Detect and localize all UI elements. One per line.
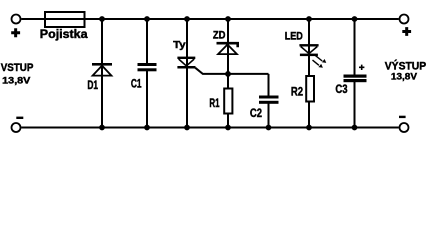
- terminal input -: [12, 123, 21, 132]
- svg-text:C1: C1: [131, 77, 142, 91]
- svg-text:R1: R1: [209, 96, 219, 110]
- svg-text:VSTUP: VSTUP: [1, 62, 34, 74]
- wire C2 top: [268, 74, 270, 96]
- diode D1: [92, 63, 112, 76]
- wire C1 bottom: [146, 71, 148, 128]
- node dot top C1: [144, 16, 150, 22]
- terminal output +: [400, 15, 409, 24]
- svg-text:Ty: Ty: [173, 39, 186, 51]
- node dot bottom C2: [266, 125, 272, 131]
- node gate junction: [225, 71, 231, 77]
- wire gate line: [195, 68, 268, 74]
- fuse F1: [45, 12, 85, 27]
- LED D2: [299, 44, 318, 56]
- svg-text:Pojistka: Pojistka: [40, 29, 88, 41]
- wire LED column top: [308, 19, 310, 77]
- node dot top C3: [352, 16, 358, 22]
- LED arrow 2: [313, 60, 323, 68]
- node dot top ZD: [225, 16, 231, 22]
- terminal output -: [400, 123, 409, 132]
- minus sign output: [399, 116, 406, 118]
- svg-text:C3: C3: [335, 82, 347, 96]
- node dot bottom R1: [225, 125, 231, 131]
- wire top rail: [21, 18, 399, 20]
- resistor R1: [224, 89, 232, 114]
- svg-text:C2: C2: [250, 106, 262, 120]
- plus sign output: [402, 27, 411, 36]
- minus sign input: [16, 117, 23, 119]
- node dot top LED: [306, 16, 312, 22]
- wire R2 bottom: [308, 102, 310, 128]
- node dot top D1: [99, 16, 105, 22]
- wire bottom rail: [21, 127, 399, 129]
- wire C1 top: [146, 19, 148, 64]
- capacitor C2: [259, 96, 279, 104]
- capacitor C1: [138, 63, 157, 71]
- wire C3 bottom: [354, 82, 356, 128]
- capacitor C3 electrolytic: [344, 75, 367, 83]
- node dot bottom D1: [99, 125, 105, 131]
- svg-text:13,8V: 13,8V: [2, 75, 31, 86]
- LED arrow 1: [315, 55, 326, 63]
- node dot bottom C1: [144, 125, 150, 131]
- svg-text:VÝSTUP: VÝSTUP: [385, 59, 426, 72]
- svg-text:ZD: ZD: [213, 30, 226, 42]
- thyristor Ty: [177, 57, 195, 69]
- svg-text:13,8V: 13,8V: [391, 71, 418, 82]
- node dot top Ty: [184, 16, 190, 22]
- wire C2 bottom: [268, 104, 270, 128]
- wire D1 column: [101, 19, 103, 128]
- wire Ty column: [186, 19, 188, 128]
- svg-text:D1: D1: [87, 78, 98, 92]
- resistor R2: [306, 76, 314, 102]
- node dot bottom R2: [306, 125, 312, 131]
- plus sign input: [11, 28, 20, 37]
- terminal input +: [12, 15, 21, 24]
- svg-text:R2: R2: [291, 85, 303, 99]
- wire R1 bottom: [227, 114, 229, 128]
- node dot bottom Ty: [184, 125, 190, 131]
- zener diode ZD: [217, 43, 238, 54]
- plus sign C3: [359, 65, 364, 70]
- node dot bottom C3: [352, 125, 358, 131]
- wire ZD column: [227, 19, 229, 89]
- svg-text:LED: LED: [285, 30, 303, 42]
- wire C3 top: [354, 19, 356, 75]
